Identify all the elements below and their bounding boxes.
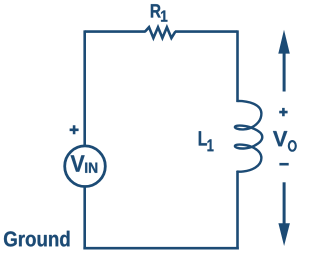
minus polarity mark (V_O) [279, 163, 288, 166]
V_IN label [71, 155, 85, 171]
resistor R1 [145, 27, 175, 38]
wire: right upper segment [236, 30, 239, 102]
wire: left lower segment [83, 187, 86, 250]
Ground label [4, 231, 70, 247]
V_O label [273, 131, 287, 146]
arrow up (V_O top) [283, 52, 286, 92]
plus polarity mark of source V_IN [70, 125, 79, 134]
wire: top-left segment [85, 30, 146, 33]
inductor L1 label [199, 131, 207, 145]
arrow down (V_O bottom) [283, 182, 286, 223]
resistor R1 label [151, 4, 161, 17]
wire: top-right segment [175, 30, 238, 33]
wire: bottom [83, 247, 238, 250]
wire: left upper segment [83, 30, 86, 145]
inductor L1 coil [235, 101, 262, 172]
plus polarity mark (V_O) [279, 108, 287, 116]
wire: right lower segment [236, 171, 239, 250]
voltage source V_IN circle [65, 146, 106, 187]
